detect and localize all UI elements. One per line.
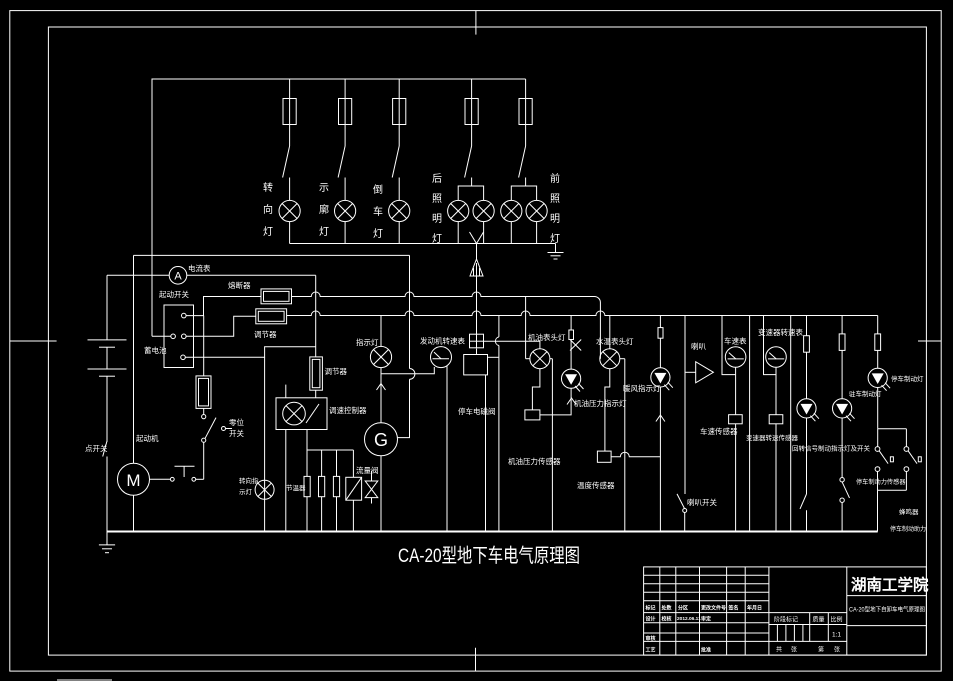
wire: contact1 to fuse box1: [186, 297, 261, 316]
bottom edge dash mark: [57, 679, 112, 681]
wire: vertical x315 ammeter to regulator resistor: [315, 275, 317, 357]
title block left table grid: [644, 567, 769, 655]
fuse F4: [465, 79, 478, 146]
svg-text:审定: 审定: [701, 616, 711, 623]
svg-text:前: 前: [550, 172, 560, 185]
svg-text:后: 后: [432, 173, 442, 185]
wire: drop from line A at x525: [526, 297, 530, 359]
svg-text:机油表头灯: 机油表头灯: [528, 332, 566, 342]
lamp: rear light b: [473, 200, 494, 243]
svg-text:喇叭开关: 喇叭开关: [687, 497, 717, 507]
wire: top feed bus: [152, 79, 526, 336]
lamp: front light b: [526, 172, 560, 245]
sensor: speed sender 车速传感器: [700, 367, 742, 531]
svg-text:示: 示: [319, 183, 329, 194]
svg-text:校核: 校核: [662, 616, 672, 623]
svg-text:灯: 灯: [373, 228, 383, 240]
wire: line B distribution: [287, 311, 878, 316]
solenoid valve coil 停车电磁阀: [458, 349, 496, 417]
wire: vertical x409 drop to generator: [397, 255, 415, 437]
svg-text:水温表头灯: 水温表头灯: [596, 336, 634, 346]
gauge: speedometer 车速表: [722, 316, 747, 375]
svg-text:张: 张: [791, 646, 797, 654]
wire: line A distribution: [292, 292, 601, 359]
LED: brake indicator 停车制动灯: [868, 368, 924, 390]
svg-text:A: A: [174, 271, 182, 283]
wire: y341 instrument feed: [484, 340, 540, 342]
svg-text:阶段标记: 阶段标记: [774, 616, 798, 624]
resistor x660: [658, 316, 663, 368]
wire: solenoid bottom lead: [485, 375, 487, 532]
motor: starter M 起动机: [118, 433, 159, 532]
wire: return line y255: [134, 254, 410, 256]
svg-text:向: 向: [263, 203, 273, 216]
svg-text:调速控制器: 调速控制器: [329, 405, 367, 415]
wire: motor drop: [133, 255, 135, 463]
svg-text:质量: 质量: [813, 616, 825, 624]
svg-text:2012.06.11: 2012.06.11: [677, 616, 701, 622]
svg-text:变速器转速传感器: 变速器转速传感器: [746, 433, 799, 442]
svg-text:G: G: [374, 430, 388, 450]
connector arrow symbol: [470, 244, 483, 277]
svg-text:明: 明: [432, 213, 442, 225]
svg-text:电流表: 电流表: [188, 263, 211, 273]
svg-text:转: 转: [263, 181, 273, 194]
connector block 2x2: [470, 334, 484, 348]
resistor x842: [839, 316, 845, 399]
sensor: transmission speed sender 变速器转速传感器: [746, 367, 799, 531]
wire: controller bottom leads: [286, 430, 354, 532]
svg-text:灯: 灯: [319, 226, 329, 238]
wire: right leg x749: [749, 316, 751, 532]
svg-text:处数: 处数: [661, 605, 673, 612]
svg-text:廓: 廓: [319, 203, 329, 216]
wire: contact to top-box vertical: [152, 335, 171, 337]
svg-text:CA-20型地下车电气原理图: CA-20型地下车电气原理图: [398, 545, 580, 567]
starter contacts and push bar: [150, 466, 204, 481]
wire: temp sensor lead with hop: [611, 452, 660, 457]
relay: starter switch box 起动开关: [159, 289, 194, 368]
ground: battery ground: [99, 532, 115, 553]
svg-text:暖风指示灯: 暖风指示灯: [623, 383, 661, 393]
title block frame: [644, 567, 927, 655]
resistor bank 节温器: [286, 476, 340, 531]
svg-text:转向指: 转向指: [239, 476, 259, 485]
horn 喇叭: [685, 316, 713, 495]
switch S4: [465, 146, 472, 186]
lamp: water temp lamp 水温表头灯: [596, 316, 634, 369]
LED: parking brake indicator 驻车制动灯: [833, 389, 883, 421]
centering mark bottom: [475, 648, 477, 671]
svg-text:M: M: [126, 471, 140, 490]
lamp: turn signal 转向灯: [263, 181, 300, 244]
regulator box2 调节器: [254, 309, 287, 339]
switch S1: [283, 146, 290, 200]
svg-text:蜂鸣器: 蜂鸣器: [899, 507, 919, 516]
svg-text:设计: 设计: [646, 616, 656, 623]
lamp: clearance 示廓灯: [319, 183, 356, 244]
svg-text:调节器: 调节器: [325, 367, 348, 376]
svg-text:停车制动力传感器: 停车制动力传感器: [856, 478, 906, 486]
svg-text:比例: 比例: [831, 616, 843, 624]
svg-text:停车电磁阀: 停车电磁阀: [458, 406, 496, 416]
wire: oil lamp right to drop x552: [550, 359, 553, 532]
svg-text:明: 明: [550, 213, 560, 225]
title block right: school name: [847, 575, 929, 626]
switch: main battery switch: [85, 441, 108, 532]
controller box 调速控制器: [276, 398, 367, 430]
svg-text:1:1: 1:1: [832, 632, 841, 639]
switch: x806 lower switch: [800, 418, 807, 532]
svg-text:车速表: 车速表: [724, 336, 747, 346]
resistor x806: [804, 316, 810, 399]
lamp: rear light a 后照明灯: [432, 173, 469, 245]
wire: lamp to generator with caret: [377, 368, 386, 423]
ground: lamp bus ground: [548, 244, 564, 260]
node: V notch junction: [470, 232, 484, 244]
wire: rear lamp pair bar: [458, 186, 483, 200]
lamp: reverse 倒车灯: [373, 184, 410, 244]
svg-text:调节器: 调节器: [254, 330, 277, 339]
svg-text:灯: 灯: [263, 226, 273, 238]
sensor: oil pressure sender 机油压力传感器: [508, 410, 561, 466]
svg-text:发动机转速表: 发动机转速表: [420, 336, 465, 346]
wire: vertical x498 with hop: [495, 316, 498, 532]
battery 蓄电池: [88, 275, 167, 442]
fuse F2: [339, 79, 352, 146]
sensor: temperature sender 温度传感器: [577, 451, 615, 490]
svg-text:起动机: 起动机: [136, 433, 159, 443]
resistor R204 zero-position: [196, 376, 211, 409]
svg-text:节温器: 节温器: [286, 483, 306, 492]
LED: indicator x806: [797, 399, 819, 421]
gauge: engine tachometer 发动机转速表: [381, 336, 465, 532]
svg-text:车: 车: [373, 205, 383, 218]
title block middle table: [769, 613, 847, 654]
svg-text:变速器转速表: 变速器转速表: [758, 327, 803, 337]
svg-text:机油压力指示灯: 机油压力指示灯: [574, 398, 627, 408]
svg-text:倒: 倒: [373, 184, 383, 196]
lamp: oil gauge lamp 机油表头灯: [528, 332, 566, 369]
svg-text:驻车制动灯: 驻车制动灯: [849, 389, 882, 398]
wire: right leg x790: [790, 316, 792, 532]
svg-text:审核: 审核: [646, 635, 656, 642]
title block left table texts: [645, 605, 763, 654]
svg-text:更改文件号: 更改文件号: [701, 605, 726, 612]
switch S2: [338, 146, 345, 200]
wire: oil lamp bottom to sensor: [532, 369, 540, 410]
svg-text:年月日: 年月日: [747, 605, 762, 612]
switch: horn switch 喇叭开关: [677, 494, 717, 532]
svg-text:分区: 分区: [678, 605, 688, 612]
switch cluster: brake switches: [875, 388, 921, 532]
wire: ammeter feed line: [107, 274, 316, 276]
svg-text:示灯: 示灯: [239, 487, 253, 496]
svg-text:熔断器: 熔断器: [228, 280, 251, 290]
wire: drop to resistor R204: [203, 316, 205, 376]
fuse F5: [519, 79, 532, 146]
svg-text:批准: 批准: [701, 647, 711, 654]
resistor x877: [875, 316, 881, 369]
svg-text:签名: 签名: [728, 605, 739, 612]
svg-text:共: 共: [776, 646, 782, 654]
fuse F3: [393, 79, 406, 146]
svg-text:开关: 开关: [229, 428, 244, 438]
switch: pressure contact x842: [840, 418, 906, 532]
lamp: turn indicator 转向指示灯: [239, 476, 274, 499]
LED: warm air indicator 暖风指示灯: [623, 368, 673, 393]
svg-text:起动开关: 起动开关: [159, 289, 189, 299]
fuse with cross x571: [569, 316, 581, 370]
svg-text:喇叭: 喇叭: [691, 341, 706, 351]
svg-text:张: 张: [834, 646, 840, 654]
lamp: front light a 前照明灯: [501, 200, 522, 243]
wire: sensor to LED lead with caret: [540, 388, 571, 415]
LED: oil pressure indicator 机油压力指示灯: [562, 369, 627, 408]
fuse box1 熔断器: [228, 280, 292, 304]
svg-text:车速传感器: 车速传感器: [700, 426, 738, 436]
centering mark top: [475, 11, 477, 35]
wire: bottom bus: [107, 531, 878, 533]
resistor: regulator 调节器 vertical: [310, 357, 348, 398]
svg-text:点开关: 点开关: [85, 443, 108, 453]
switch: zero position 零位开关: [202, 408, 245, 479]
svg-text:第: 第: [818, 646, 824, 654]
svg-text:湖南工学院: 湖南工学院: [851, 575, 929, 594]
wire: arrow drop to connector box: [476, 276, 478, 335]
wire: solenoid right lead: [488, 356, 499, 358]
wire: right border stub: [918, 340, 941, 342]
svg-text:机油压力传感器: 机油压力传感器: [508, 456, 561, 466]
gauge: transmission tachometer 变速器转速表: [758, 316, 803, 375]
fuse F1: [283, 79, 296, 146]
svg-text:照: 照: [550, 193, 560, 205]
wire: lamp return bus: [290, 243, 556, 245]
switch S5: [519, 146, 526, 186]
wire: water lamp bottom to temp sensor: [605, 369, 610, 451]
wire: water lamp right drop x624: [620, 359, 625, 532]
wire: contact3 jog line: [185, 347, 315, 358]
svg-text:CA-20型地下自卸车电气原理图: CA-20型地下自卸车电气原理图: [849, 606, 925, 614]
svg-text:停车制动助力: 停车制动助力: [890, 525, 926, 533]
svg-text:工艺: 工艺: [646, 647, 656, 654]
wire: front lamp pair bar: [511, 186, 536, 200]
wire: stub above controller box: [285, 385, 287, 398]
switch S3: [392, 146, 399, 200]
svg-text:停车制动灯: 停车制动灯: [891, 374, 924, 383]
wire: turn indicator drop x264: [264, 357, 266, 531]
svg-text:标记: 标记: [645, 605, 656, 612]
svg-text:零位: 零位: [229, 417, 244, 427]
svg-text:温度传感器: 温度传感器: [577, 480, 615, 490]
valve 流量阀: [346, 465, 379, 532]
svg-text:回转信号制动指示灯及开关: 回转信号制动指示灯及开关: [792, 444, 871, 453]
svg-text:指示灯: 指示灯: [356, 337, 379, 347]
ammeter A: [169, 263, 211, 284]
wire: contact2 to regulator box2: [186, 316, 256, 336]
svg-text:流量阀: 流量阀: [356, 465, 379, 475]
generator G: [365, 423, 398, 532]
svg-text:照: 照: [432, 193, 442, 205]
lamp: indicator 指示灯: [356, 316, 392, 368]
centering mark left: [10, 340, 57, 342]
wire: x660 drop with caret: [656, 387, 665, 532]
